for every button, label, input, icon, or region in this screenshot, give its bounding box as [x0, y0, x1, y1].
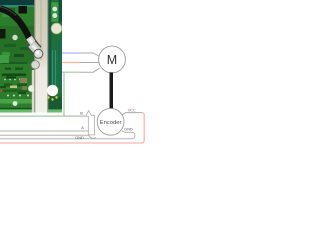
connector bottom bump	[88, 135, 96, 138]
wire green motor	[62, 71, 80, 73]
pcb dark top band	[0, 0, 62, 6]
pale solder circle	[51, 23, 62, 34]
right pcb strip	[48, 0, 62, 113]
wire gray A	[0, 130, 88, 132]
wire blue motor	[62, 52, 80, 54]
left pcb texture	[19, 6, 28, 14]
connector top bump	[86, 111, 91, 116]
svg-text:Encoder: Encoder	[100, 120, 122, 126]
svg-text:GND: GND	[75, 135, 84, 140]
metal bracket vertical strip	[34, 0, 48, 113]
svg-text:GND: GND	[124, 126, 133, 131]
wire gray GND left	[0, 134, 88, 136]
black cable	[0, 9, 30, 40]
green terminal block	[51, 2, 58, 21]
svg-text:A: A	[81, 125, 84, 130]
encoder connector box	[88, 115, 94, 135]
metal cylinder rod	[29, 38, 43, 59]
encoder circle	[97, 108, 124, 135]
bright patches left pcb	[0, 55, 9, 63]
motor M1 circle	[99, 46, 126, 73]
svg-text:M: M	[107, 53, 117, 67]
chrome circle below	[31, 61, 39, 69]
lighter pcb lower band	[0, 99, 34, 104]
wire green vertical	[63, 72, 65, 116]
tan components mid-left	[20, 78, 27, 83]
wire VCC gray part	[122, 113, 142, 115]
dark bottom-right pcb corner	[48, 97, 62, 109]
wire green B	[0, 115, 79, 117]
bracket screw blob	[28, 85, 35, 92]
svg-text:VCC: VCC	[128, 107, 136, 112]
pcb base	[0, 0, 62, 113]
shaft	[110, 72, 114, 108]
white glow blob	[47, 85, 58, 96]
wire VCC pink part	[0, 113, 144, 143]
pcb bottom edge	[0, 108, 62, 110]
wire gray GND right loop	[0, 131, 135, 139]
svg-text:B: B	[80, 111, 83, 116]
wire orange motor	[62, 62, 80, 64]
